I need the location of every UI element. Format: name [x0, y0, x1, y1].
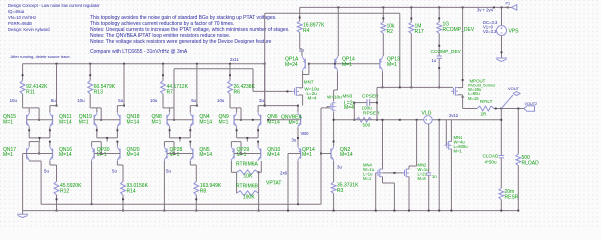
wire: QP1A diode bracket [302, 71, 304, 74]
wire: supply drop to MPOUT [462, 7, 464, 88]
wire: QN6 collector feed [264, 64, 266, 106]
svg-text:M=14: M=14 [340, 152, 353, 158]
wire: output to flags [494, 108, 524, 110]
svg-text:M=14: M=14 [199, 152, 212, 158]
resistor R14 93.0156K [121, 182, 126, 196]
wire: drop to row2 [179, 138, 181, 142]
svg-text:5u: 5u [118, 98, 123, 103]
wire: MN2 source down [408, 177, 410, 211]
wire: CLOAD branch [500, 109, 502, 156]
wire: MPOUT source [458, 87, 463, 89]
wire: QP14 base to ground [288, 153, 301, 155]
resistor R4 16.8977K [297, 21, 302, 33]
svg-text:Compare with LTC6655 - 31nV/rt: Compare with LTC6655 - 31nV/rtHz @ 3mA [90, 49, 188, 55]
wire: RCOMP top [438, 7, 440, 22]
svg-text:5u: 5u [191, 98, 196, 103]
svg-text:R14: R14 [127, 189, 136, 195]
wire: QN17 emitter down [28, 160, 30, 162]
svg-text:RCOMP_DEV: RCOMP_DEV [443, 27, 475, 33]
wire: series RC right vertical [376, 87, 378, 119]
wire: QN20 collector feed [116, 142, 118, 146]
wire: VLG line [334, 119, 424, 121]
mosfet MN1 W=4u L=500u M=1 [446, 142, 448, 148]
wire: MN1 drain up [450, 120, 452, 142]
wire: QN10 collector feed [257, 142, 259, 146]
junction on top rail [382, 6, 384, 8]
junction at QN19 base [100, 119, 102, 121]
wire: RLOAD branch [517, 109, 519, 155]
svg-text:R12: R12 [60, 189, 69, 195]
svg-text:M=8: M=8 [418, 176, 427, 181]
svg-text:M=1: M=1 [454, 149, 463, 154]
wire: QN19 collector feed [89, 94, 91, 108]
svg-text:M=14: M=14 [59, 120, 72, 126]
wire: top rail (line A) [300, 6, 508, 8]
svg-text:M=14: M=14 [199, 120, 212, 126]
junction at QN9 base [240, 119, 242, 121]
wire: MN2 drain up to VLG line [408, 166, 410, 169]
svg-text:VPTAT: VPTAT [266, 181, 281, 187]
wire: MN3 gate link [321, 107, 330, 109]
resistor R11 92.4142K [20, 81, 25, 95]
wire: QN16 collector feed [49, 142, 51, 146]
transistor QP13 M=1 [379, 59, 381, 69]
transistor QN11 M=14 [52, 115, 54, 125]
junction on left rail [264, 63, 266, 65]
junction at QN15 base [38, 119, 40, 121]
transistor QNVBEA M=1 [300, 115, 302, 125]
transistor QN10 M=14 [260, 149, 262, 159]
svg-text:M=14: M=14 [127, 120, 140, 126]
wire: RCOMP to CCOMP [438, 34, 440, 57]
svg-text:R13: R13 [94, 90, 103, 96]
wire: R17 down to comp node [410, 34, 412, 88]
svg-text:M=4: M=4 [308, 96, 318, 101]
svg-text:10K: 10K [244, 173, 254, 179]
wire: R3 to ground rail [333, 194, 335, 211]
junction on left rail [123, 63, 125, 65]
wire: QP14 collector down to feedback [297, 161, 299, 204]
svg-text:MN7: MN7 [304, 80, 314, 85]
svg-text:V2=3.3: V2=3.3 [483, 29, 497, 34]
svg-text:M=1: M=1 [302, 152, 312, 158]
wire: MPOUT drain to output [458, 94, 463, 96]
wire: MN1 source to ground rail [450, 149, 452, 211]
junction on left rail [56, 63, 58, 65]
svg-text:2x11: 2x11 [230, 57, 239, 62]
wire: R12 to ground rail [56, 195, 58, 211]
transistor QN5 M=14 [192, 149, 194, 159]
svg-text:W=10u: W=10u [327, 95, 342, 100]
junction on top rail [410, 6, 412, 8]
wire: QP28 emitter down [163, 161, 165, 211]
wire: left supply rail [23, 63, 265, 65]
svg-text:R17: R17 [415, 29, 424, 35]
svg-text:M=1: M=1 [3, 152, 13, 158]
svg-text:3u: 3u [259, 98, 264, 103]
svg-text:5u: 5u [112, 169, 117, 174]
svg-text:M=1: M=1 [152, 120, 162, 126]
wire: R11 top [22, 64, 24, 81]
wire: QP14 collector down [337, 71, 339, 90]
junction on left rail [89, 63, 91, 65]
transistor QN8 M=1 [166, 115, 168, 125]
transistor QN4 M=14 [192, 115, 194, 125]
wire: PTAT tap to MN7 gate [174, 68, 253, 70]
wire: R8 to ground rail [195, 195, 197, 211]
svg-text:M=1: M=1 [342, 62, 352, 68]
junction on top rail [438, 6, 440, 8]
svg-text:R11: R11 [26, 90, 35, 96]
svg-text:190K: 190K [243, 195, 255, 201]
svg-text:CLOAD: CLOAD [483, 153, 500, 158]
wire: MN7 drain to QP1A collector [302, 75, 304, 88]
wire: R4 to QP1A [299, 33, 301, 49]
wire: R13 top [89, 64, 91, 81]
wire: row1 emitters [96, 127, 98, 138]
transistor QP14 M=1 (lower) [300, 149, 302, 159]
svg-text:MN3: MN3 [343, 94, 353, 99]
junction on top rail [337, 6, 339, 8]
svg-text:M=14: M=14 [127, 152, 140, 158]
svg-text:M=16: M=16 [468, 96, 479, 101]
svg-text:M=24: M=24 [285, 62, 298, 68]
wire: row1 base link [167, 119, 193, 121]
wire: QN18 collector feed [123, 64, 125, 106]
wire: QNVBEA base link [268, 119, 301, 121]
transistor QN20 M=14 [119, 149, 121, 159]
svg-text:RLOAD: RLOAD [522, 160, 540, 166]
svg-text:M=14: M=14 [267, 120, 280, 126]
transistor QN16 M=14 [52, 149, 54, 159]
wire: QP1A base rail to QP14/QP13 [309, 63, 380, 65]
wire: drop to row2 [106, 138, 108, 142]
wire: CCOMP to comp node [438, 59, 440, 88]
wire: row1 base link [27, 119, 53, 121]
capacitor C MN cluster [428, 124, 430, 173]
wire: QN5 emitter to R8 [189, 161, 191, 165]
svg-text:R4: R4 [303, 28, 310, 34]
resistor RCOMP_DEV 1G [437, 22, 442, 34]
svg-text:R7: R7 [167, 90, 174, 96]
wire: QP29 emitter to trim resistors [230, 161, 232, 172]
svg-text:VN=10 nV/rtHz: VN=10 nV/rtHz [8, 15, 36, 20]
svg-text:R2: R2 [387, 29, 394, 35]
svg-text:M=1: M=1 [219, 120, 229, 126]
wire: comp node wire [377, 86, 453, 88]
junction near P1 [493, 6, 495, 8]
mosfet MN4 W=1u L=1u M=1 [377, 170, 379, 176]
svg-text:After running, delete source t: After running, delete source trace. [11, 54, 71, 59]
transistor QN15 M=1 [26, 115, 28, 125]
resistor R12 45.5920K [54, 182, 59, 196]
transistor QN19 M=1 [93, 115, 95, 125]
resistor R2 10k [381, 22, 386, 34]
wire: mid rail (line B) [265, 12, 400, 14]
svg-text:P1: P1 [506, 2, 511, 6]
wire: VPS top [501, 7, 503, 25]
wire: series RC left vertical [353, 103, 355, 120]
wire: QP28 collector feed [164, 141, 174, 143]
svg-text:2v12: 2v12 [449, 113, 459, 118]
svg-text:R8: R8 [200, 189, 207, 195]
svg-text:4*50u: 4*50u [485, 160, 497, 165]
wire: QN2 base column [320, 108, 322, 204]
junction on left rail [229, 63, 231, 65]
wire: QN20 emitter to R14 [116, 161, 118, 165]
svg-text:3v + 2v4: 3v + 2v4 [477, 8, 494, 13]
mosfet MN7 W=10u L=2u M=4 [294, 88, 296, 94]
wire: QP13 collector to comp node [382, 71, 384, 87]
junction on left rail [162, 63, 164, 65]
svg-text:VOUT: VOUT [508, 86, 520, 91]
junction feedback-QNVBEA branch [297, 203, 299, 205]
wire: cap bottom to rail [428, 176, 430, 211]
wire: R7 top [162, 64, 164, 81]
svg-text:M=1: M=1 [363, 176, 372, 181]
wire: trim right to ground rail [258, 172, 260, 193]
transistor QP29 M=1 [233, 149, 235, 159]
svg-text:M=4: M=4 [344, 105, 354, 111]
svg-text:10u: 10u [77, 98, 85, 103]
wire: QN2 emitter to R3 [333, 161, 335, 182]
wire: QN4 collector feed [196, 64, 198, 106]
transistor QN9 M=1 [233, 115, 235, 125]
svg-text:10u: 10u [217, 98, 225, 103]
wire: R14 to ground rail [122, 195, 124, 211]
wire: row1 base link [94, 119, 120, 121]
junction on top rail [501, 6, 503, 8]
resistor R3 35.3731K [331, 182, 336, 194]
resistor R8 163.949K [194, 182, 199, 196]
mosfet MN2 W=1u L=2u M=8 [404, 170, 406, 176]
svg-text:RFILT: RFILT [480, 99, 493, 104]
wire: row2 base link [27, 153, 53, 155]
junction at QP29 base [240, 153, 242, 155]
resistor R7 44.1712K [161, 81, 166, 95]
wire: QP30 collector feed [92, 141, 102, 143]
resistor R17 1M [409, 22, 414, 34]
svg-text:CCOMP_DEV: CCOMP_DEV [431, 49, 462, 55]
wire: row2 base link [234, 153, 261, 155]
junction on top rail [462, 6, 464, 8]
wire: drop to row2 [246, 138, 248, 142]
wire: row2 base link [167, 153, 193, 155]
svg-text:5u: 5u [51, 98, 56, 103]
svg-text:RESR: RESR [505, 194, 519, 200]
wire: CLOAD to RESR [500, 158, 502, 188]
svg-text:M=1: M=1 [289, 120, 299, 126]
wire: QN10 emitter to trim right [260, 161, 262, 172]
wire: ground rail [23, 210, 519, 212]
wire: MN4 source down [382, 177, 384, 184]
wire: VLG return column [438, 120, 440, 211]
svg-text:VOUT2: VOUT2 [525, 102, 538, 106]
junction at QP30 base [100, 153, 102, 155]
svg-text:5u: 5u [166, 169, 171, 174]
wire: QN15 collector feed [22, 94, 24, 108]
wire: row1 emitters [28, 127, 30, 138]
svg-text:M=14: M=14 [59, 152, 72, 158]
wire: ground stub [22, 211, 24, 215]
wire: MN4-MN2 link [383, 172, 405, 174]
wire: RLOAD to ground rail [517, 166, 519, 211]
wire: MN4 gate column [376, 172, 378, 174]
wire: MN4 drain up [382, 120, 384, 170]
svg-text:5u: 5u [44, 169, 49, 174]
wire: QN9 collector feed [229, 94, 231, 108]
wire: MN7 source to QNVBEA [299, 94, 303, 96]
svg-text:Notes: The voltage stack resis: Notes: The voltage stack resistors were … [90, 39, 272, 45]
wire: drop to row2 [39, 138, 41, 142]
svg-text:RTRIM6A: RTRIM6A [236, 162, 259, 168]
svg-text:100u: 100u [362, 106, 373, 111]
resistor RESR 20m [499, 188, 504, 200]
wire: feedback wire [41, 203, 321, 205]
svg-text:RPSER: RPSER [363, 110, 380, 116]
svg-text:2R: 2R [481, 112, 488, 117]
svg-text:R6: R6 [234, 90, 241, 96]
wire: row1 emitters [236, 127, 238, 138]
transistor QN2 M=14 [330, 149, 332, 159]
wire: QP30 emitter down [91, 161, 93, 204]
svg-text:Design: Kevin Aylward: Design: Kevin Aylward [8, 27, 50, 32]
svg-text:IQ=48ua: IQ=48ua [8, 9, 25, 14]
svg-text:1n: 1n [432, 174, 437, 179]
wire: R17 top [410, 7, 412, 22]
junction at QN8 base [173, 119, 175, 121]
svg-text:M=1: M=1 [79, 120, 89, 126]
wire: row2 base link [94, 153, 120, 155]
wire: R2 top [382, 7, 384, 22]
svg-text:RTRIM6B: RTRIM6B [236, 183, 259, 189]
transistor QP30 M=1 [93, 149, 95, 159]
svg-text:R3: R3 [337, 188, 344, 194]
transistor QN17 M=1 [26, 149, 28, 159]
wire: MN1 gate from VLG line [445, 120, 447, 145]
svg-text:3u: 3u [292, 138, 297, 143]
wire: QN17 base to ground column [23, 153, 27, 155]
svg-text:VB0: VB0 [301, 131, 310, 136]
junction at QP28 base [173, 153, 175, 155]
wire: QN8 collector feed [162, 94, 164, 108]
wire: RESR to ground rail [500, 200, 502, 211]
svg-text:M=14: M=14 [267, 152, 280, 158]
resistor RLOAD 500 [516, 154, 521, 166]
svg-text:Design Concept - Low noise low: Design Concept - Low noise low current r… [8, 3, 100, 8]
transistor QP28 M=1 [166, 149, 168, 159]
mosfet MPOUT W=40u L=80u M=16 [453, 88, 455, 94]
junction at QN17 base [38, 153, 40, 155]
svg-text:500: 500 [363, 122, 371, 127]
wire: trim left link [236, 172, 238, 193]
wire: QN16 emitter to R12 [49, 161, 51, 165]
resistor R6 26.4238K [228, 81, 233, 95]
transistor QN18 M=14 [119, 115, 121, 125]
svg-text:2x6: 2x6 [280, 171, 288, 176]
svg-text:10u: 10u [150, 98, 158, 103]
svg-text:3u: 3u [337, 165, 342, 170]
resistor R13 60.5479K [88, 81, 93, 95]
ground [17, 213, 28, 215]
svg-text:PSRR=95dB: PSRR=95dB [8, 21, 32, 26]
wire: R4 top [299, 7, 301, 21]
wire: QP29 collector feed [231, 141, 241, 143]
wire: row1 base link [234, 119, 261, 121]
wire: MN3 gate from feedback column [327, 106, 329, 108]
svg-text:10u: 10u [10, 98, 18, 103]
wire: QN5 collector feed [189, 142, 191, 146]
wire: VPS bottom [501, 36, 503, 58]
wire: R6 top [229, 64, 231, 81]
transistor QN6 M=14 [260, 115, 262, 125]
wire: R2 to QP13 [382, 34, 384, 57]
wire: QNVBEA emitter down [297, 127, 299, 146]
svg-text:M=1: M=1 [3, 120, 13, 126]
junction on left rail [196, 63, 198, 65]
svg-text:1u: 1u [432, 58, 437, 63]
ground at VPS [496, 57, 507, 59]
wire: QN17 collector feed [29, 141, 39, 143]
wire: QN11 collector feed [56, 64, 58, 106]
wire: rail end down to QNVBEA [264, 64, 266, 106]
wire: MN3 source to QN2 collector [333, 112, 335, 147]
transistor QP14 M=1 (upper) [337, 7, 339, 56]
wire: output node [463, 108, 477, 110]
svg-text:VPS: VPS [509, 29, 520, 35]
svg-text:M=1: M=1 [387, 62, 397, 68]
wire: row1 emitters [169, 127, 171, 138]
